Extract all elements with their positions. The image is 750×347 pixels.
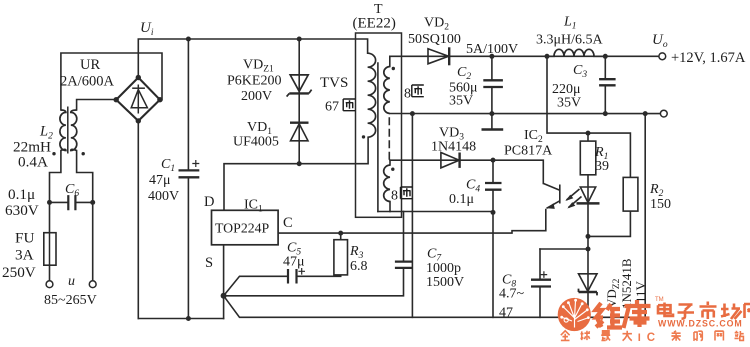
bridge vertex junctions (114, 75, 163, 124)
wire C7 top lead (403, 212, 405, 262)
svg-text:1500V: 1500V (426, 275, 464, 290)
polarity dots (52, 67, 395, 171)
IC1 TOP224P box (212, 210, 279, 245)
transformer primary winding 67T (368, 53, 376, 137)
svg-text:TOP224P: TOP224P (215, 221, 270, 236)
svg-text:47μ: 47μ (149, 173, 171, 188)
svg-text:TVS: TVS (320, 75, 348, 91)
wire R1 bottom through opto LED to zener (587, 175, 589, 317)
wm char zhan (734, 331, 743, 341)
wire secondary return vertical (411, 114, 413, 318)
svg-text:250V: 250V (2, 264, 36, 281)
wire C2 column (491, 56, 493, 129)
wire bias winding top lead (389, 160, 391, 165)
svg-text:0.1μ: 0.1μ (8, 186, 35, 203)
svg-text:UR: UR (80, 57, 100, 73)
TVS VDZ1 symbol (287, 75, 312, 97)
opto phototransistor (544, 184, 560, 209)
transformer T EE22 box (356, 33, 402, 217)
wire S node fan: C5 branch (224, 275, 341, 296)
opto emitter arrow (547, 203, 555, 209)
resistor R1 body (580, 141, 596, 175)
svg-text:8: 8 (404, 87, 411, 102)
wire choke right bottom jog to C6 right (77, 151, 93, 281)
wire S node fan: C7 branch (224, 268, 404, 296)
watermark char shi (700, 302, 717, 320)
watermark char zi (678, 305, 695, 319)
bridge inner diode (131, 85, 147, 114)
diode VD1 symbol (290, 123, 309, 141)
transformer bias winding 8T (384, 165, 390, 202)
svg-text:11V: 11V (633, 280, 648, 303)
diode VD3 symbol (441, 153, 460, 168)
svg-text:C: C (647, 332, 655, 344)
svg-text:630V: 630V (5, 202, 39, 219)
svg-text:8: 8 (391, 189, 398, 204)
watermark char ku (624, 300, 651, 328)
capacitor C5 plates (288, 269, 297, 284)
svg-text:47: 47 (499, 306, 513, 321)
wire feedback tap from +12V down to R1 R2 (547, 56, 630, 177)
svg-text:(EE22): (EE22) (353, 16, 396, 32)
svg-text:67: 67 (325, 100, 339, 115)
svg-text:50SQ100: 50SQ100 (408, 32, 461, 47)
svg-text:3.3μH/6.5A: 3.3μH/6.5A (536, 33, 604, 48)
svg-text:P6KE200: P6KE200 (227, 74, 281, 89)
input terminal circles (46, 281, 53, 288)
svg-text:D: D (204, 194, 214, 210)
svg-text:2A/600A: 2A/600A (60, 74, 115, 90)
svg-text:3A: 3A (15, 247, 34, 264)
zener VDZ2 symbol (579, 274, 598, 296)
wire bias winding bottom lead (389, 202, 391, 212)
wire core dashes (388, 118, 390, 160)
wm char quan (561, 331, 570, 341)
watermark bottom row (561, 331, 744, 344)
svg-text:u: u (68, 274, 75, 289)
wire C8 leads (539, 249, 541, 317)
wire core line solid (377, 63, 379, 212)
svg-text:1N5241B: 1N5241B (619, 258, 634, 309)
wire C pin to opto emitter (278, 210, 546, 234)
bridge rectifier UR diamond (116, 78, 160, 121)
wire C3 column (604, 56, 606, 113)
svg-text:FU: FU (15, 230, 34, 247)
wire bias winding to VD3 and opto collector (390, 160, 543, 183)
watermark char dian (658, 303, 673, 317)
capacitor C7 plates (395, 262, 413, 268)
capacitor C5 plus (298, 268, 305, 275)
svg-text:47μ: 47μ (283, 255, 305, 270)
choke L2 right winding (71, 110, 77, 151)
resistor R2 body (623, 177, 638, 211)
wm char qiu (580, 331, 589, 340)
svg-text:S: S (205, 255, 213, 271)
svg-text:6.8: 6.8 (350, 259, 368, 274)
wire fuse bottom to input terminal (49, 265, 51, 281)
wire C1 column (187, 39, 189, 319)
wire C6 right (75, 201, 92, 203)
svg-text:4.7~: 4.7~ (499, 287, 525, 302)
opto light arrows (565, 189, 581, 209)
wire C8 top wire (540, 248, 588, 250)
svg-text:35V: 35V (557, 96, 581, 111)
watermark logo circle (558, 298, 591, 331)
svg-text:85~265V: 85~265V (44, 293, 97, 308)
wire secondary output top (VD2 rail) (390, 55, 662, 57)
capacitor C3 plates (599, 79, 616, 85)
svg-text:+12V, 1.67A: +12V, 1.67A (671, 50, 746, 66)
wire R1 top lead (587, 133, 589, 141)
wire choke left bottom jog to C6 (50, 151, 61, 233)
svg-text:PC817A: PC817A (504, 144, 553, 159)
wm char zui (601, 331, 610, 341)
watermark char wei (596, 303, 623, 328)
wire drain horizontal to D pin (224, 137, 368, 210)
svg-text:WWW.DZSC.COM: WWW.DZSC.COM (658, 319, 743, 329)
watermark char chang (721, 304, 742, 320)
wire TVS VD1 clamp column (298, 39, 300, 164)
wire choke right top to bridge left vertex (77, 100, 117, 111)
wire primary ground rail (138, 318, 223, 320)
wire R3 top lead (340, 233, 342, 240)
svg-text:35V: 35V (449, 94, 473, 109)
transformer top secondary winding 8T (384, 67, 390, 114)
svg-text:400V: 400V (148, 189, 179, 204)
label turns glyph 67T box (343, 99, 355, 111)
choke L2 left winding (60, 110, 66, 151)
wire bridge upper loop to choke left (61, 53, 162, 110)
wire S pin column (223, 245, 225, 319)
resistor R3 body (334, 240, 348, 275)
wire C6 left (50, 201, 69, 203)
wm char da (622, 331, 631, 341)
wm char cai (671, 331, 680, 341)
wire top secondary top lead (389, 56, 391, 66)
wm char wang (715, 331, 724, 340)
wm char gou (694, 331, 703, 341)
capacitor C4 plates (485, 183, 502, 190)
svg-text:I: I (638, 332, 641, 344)
wire output return rail (390, 113, 664, 115)
watermark char wang partial (744, 304, 750, 318)
diode VD2 symbol (428, 47, 449, 65)
wire bias winding bottom wire (378, 211, 493, 213)
svg-text:200V: 200V (241, 89, 272, 104)
capacitor C1 plus (192, 160, 199, 167)
inductor L1 (547, 49, 605, 56)
capacitor C2 plates (483, 80, 503, 87)
output terminal circles (659, 53, 666, 60)
fuse FU body (44, 233, 56, 266)
svg-text:5A/100V: 5A/100V (466, 42, 518, 57)
svg-text:UF4005: UF4005 (233, 135, 279, 150)
svg-text:1000p: 1000p (426, 261, 461, 276)
capacitor C1 plates (179, 170, 200, 177)
wire S node fan: bottom return branch (224, 114, 646, 318)
choke L2 core line (67, 107, 69, 154)
capacitor C8 plus (541, 271, 548, 278)
wire C4 column (492, 160, 494, 317)
svg-text:0.1μ: 0.1μ (449, 192, 474, 207)
svg-text:39: 39 (595, 159, 609, 174)
capacitor C6 plates (68, 195, 75, 210)
wire C2 bottom T bar (483, 128, 502, 130)
svg-text:C: C (283, 215, 293, 231)
svg-text:TM: TM (655, 297, 664, 303)
svg-text:1N4148: 1N4148 (431, 140, 476, 155)
wire bridge bottom to ground rail (137, 121, 139, 319)
svg-text:0.4A: 0.4A (18, 154, 48, 171)
svg-text:150: 150 (650, 197, 671, 212)
wire top rail Ui (138, 39, 367, 78)
wire R2 bottom lead (588, 211, 630, 236)
opto LED symbol (577, 187, 600, 203)
capacitor C8 plates (531, 280, 551, 287)
